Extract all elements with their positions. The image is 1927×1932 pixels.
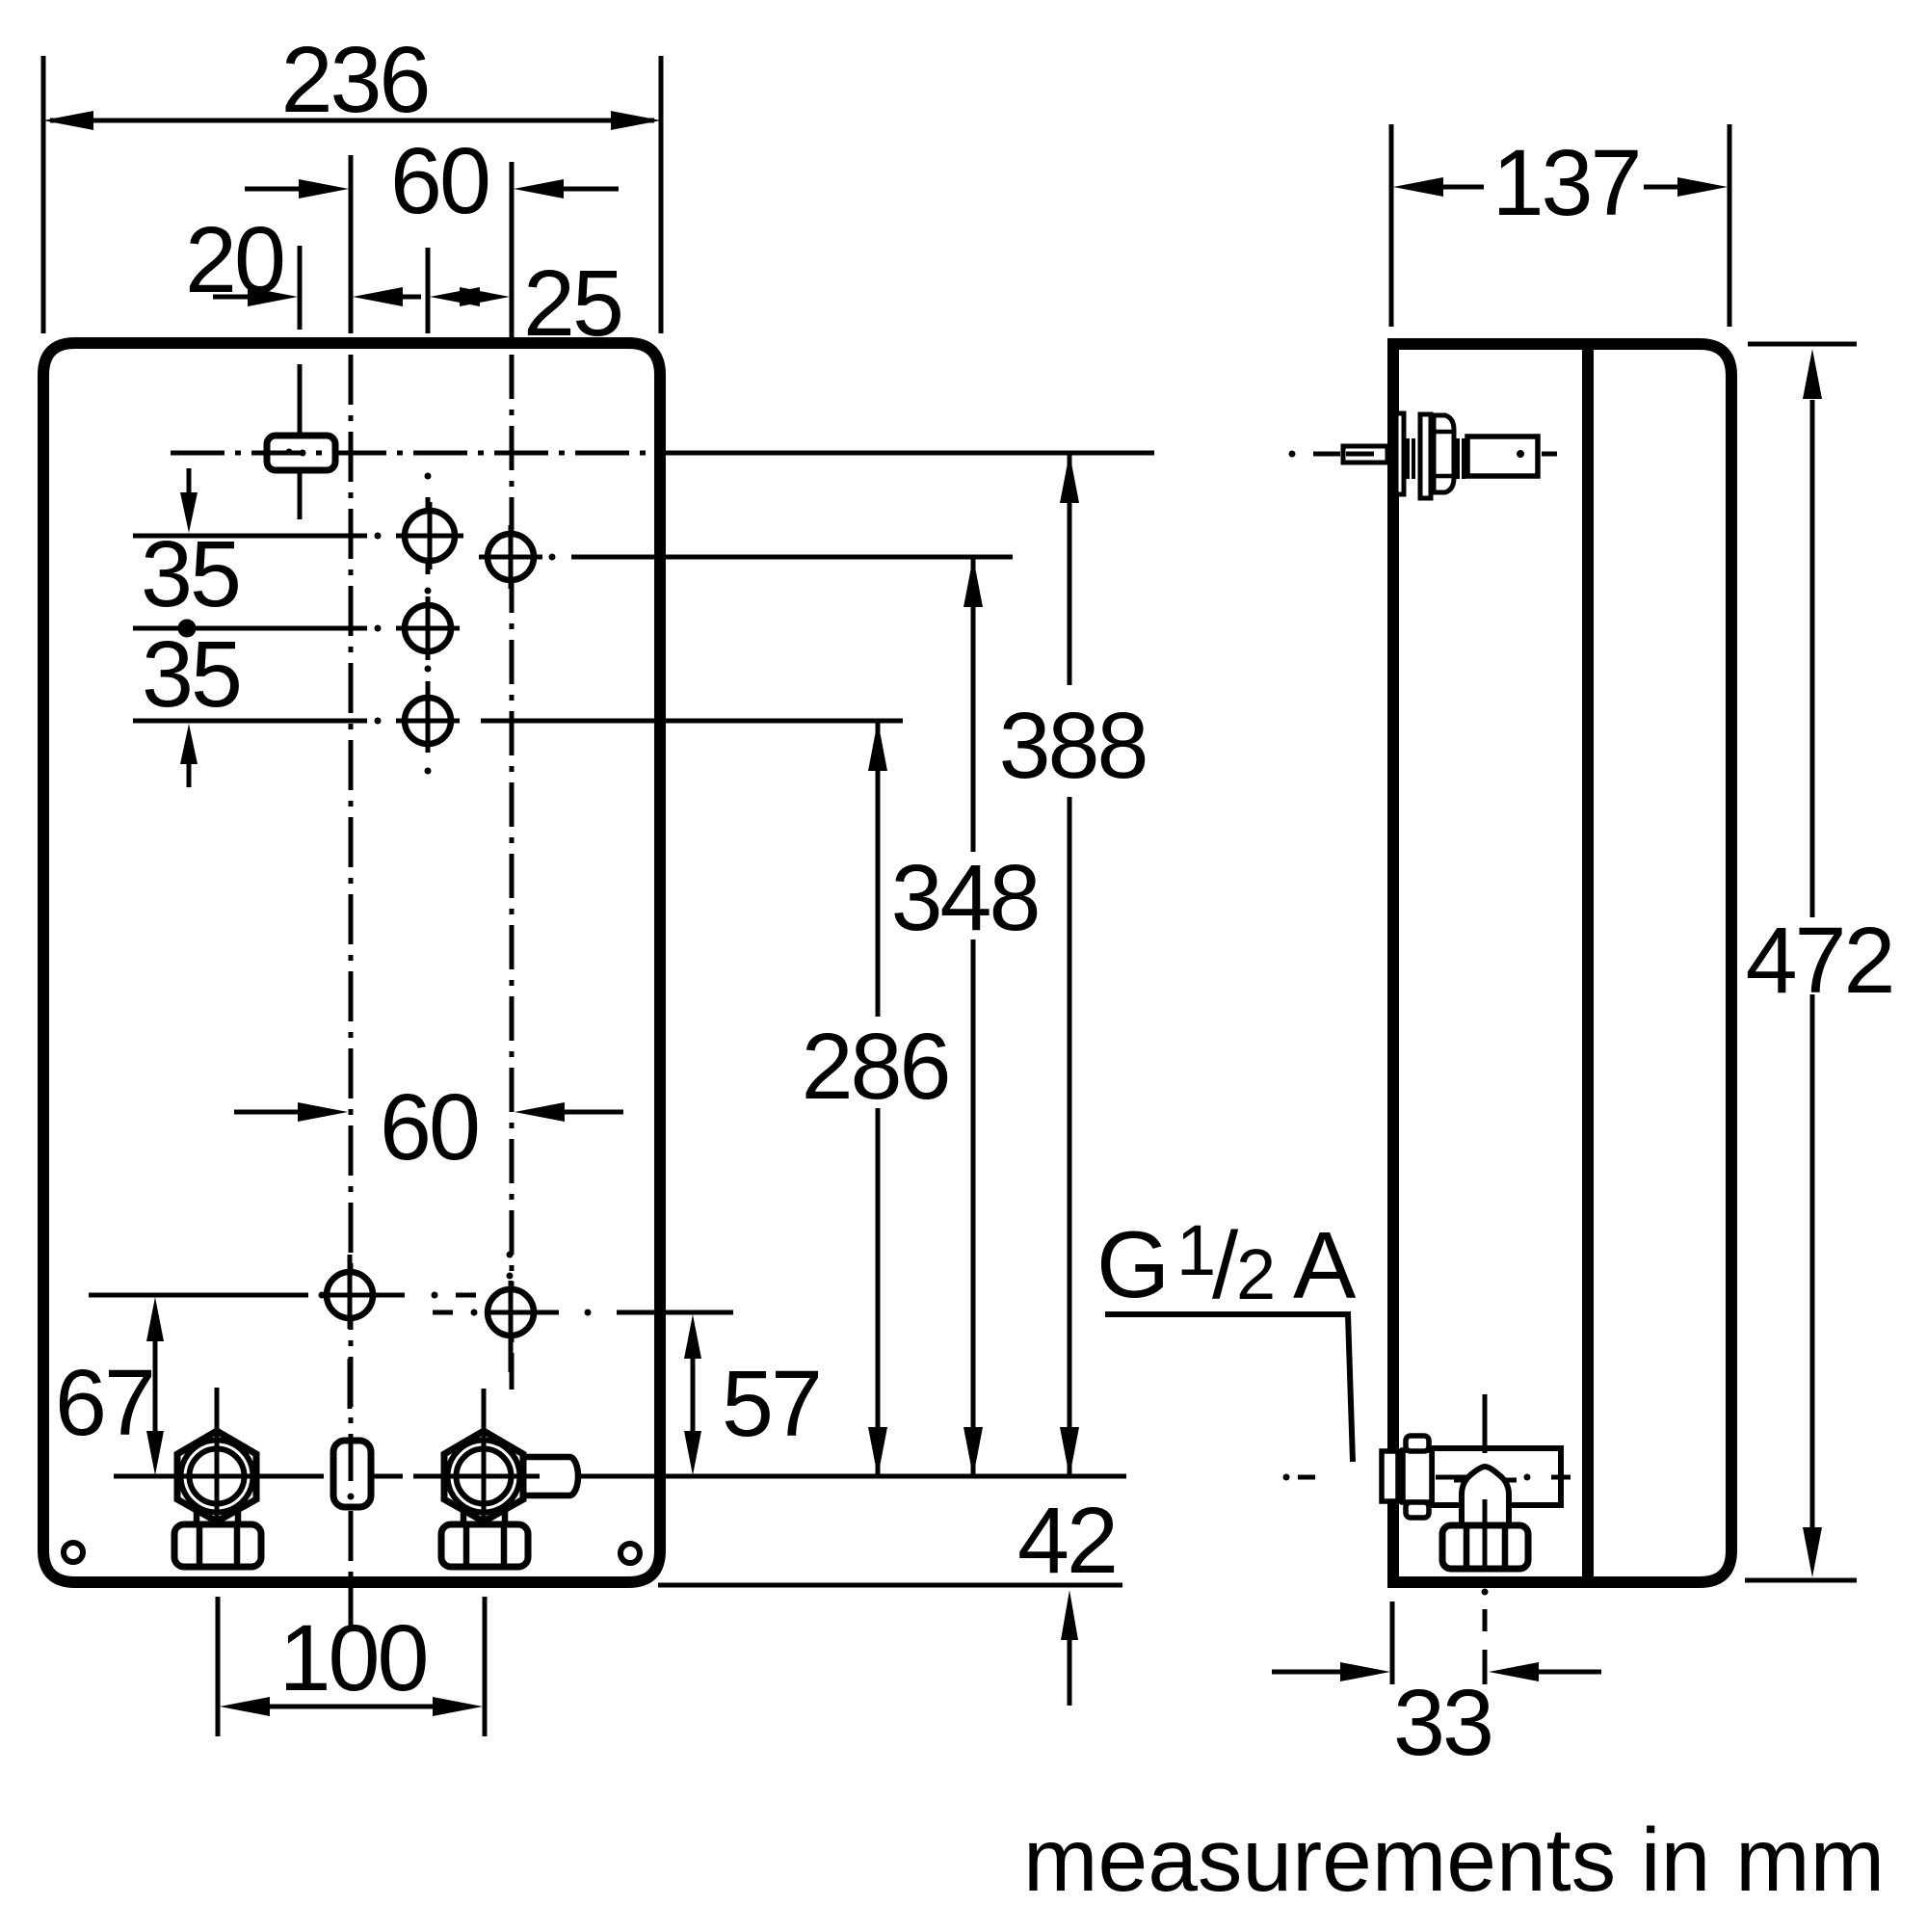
lower hole H2 circle [488, 1289, 534, 1336]
svg-text:60: 60 [390, 128, 488, 233]
side fitting flange [1382, 1451, 1398, 1501]
wall anchor top (pill) [267, 436, 335, 470]
hole row1 left reference line [133, 534, 367, 539]
side fitting pipe [1432, 1448, 1561, 1505]
top bolt hex nut [1434, 415, 1454, 492]
mounting panel outline [43, 343, 660, 1582]
side fitting vertical centerline [1483, 1394, 1488, 1453]
top bolt thread left [1406, 438, 1410, 479]
valve V1 union nut [174, 1524, 261, 1567]
top bolt washer [1420, 414, 1431, 498]
svg-text:472: 472 [1746, 908, 1893, 1013]
dimension 472 reference lines [1748, 342, 1857, 347]
row1-right line extension to 348 dimension [571, 555, 1013, 560]
side view divider line [1582, 344, 1594, 1582]
42 up arrow [1068, 1628, 1072, 1706]
dimension 388 vertical line [1068, 453, 1072, 685]
column C dash-dot through holes [425, 473, 432, 480]
top bolt centerline [1289, 451, 1296, 458]
wall anchor slot bottom [333, 1441, 371, 1507]
svg-text:measurements in mm: measurements in mm [1023, 1810, 1885, 1910]
dimension 57 double arrow [691, 1328, 696, 1462]
svg-text:1: 1 [1176, 1210, 1216, 1290]
valve V2 hexagon [444, 1431, 523, 1522]
dimension 33 [1272, 1670, 1341, 1675]
valve V2 vertical centerline [482, 1389, 487, 1569]
dimension 25 [453, 295, 487, 300]
svg-text:42: 42 [1017, 1488, 1116, 1593]
dimension 472 [1810, 400, 1815, 917]
top bolt flange plate [1396, 413, 1404, 494]
lower hole H2 reference line [433, 1310, 453, 1315]
extension line column C (left hole column) [426, 248, 431, 333]
svg-text:G: G [1096, 1211, 1170, 1317]
svg-text:388: 388 [999, 693, 1147, 798]
top bolt pin [1343, 446, 1387, 463]
svg-text:100: 100 [279, 1605, 427, 1710]
lower hole H1 circle [327, 1272, 373, 1318]
svg-text:35: 35 [142, 622, 240, 727]
dimension 236 extension lines [41, 56, 46, 333]
valve V1 vertical centerline [215, 1388, 220, 1569]
centerline column D (right hole column) [510, 162, 515, 345]
dimension 100 extension lines [216, 1597, 221, 1736]
valve centerline horizontal [114, 1474, 588, 1479]
corner screw hole left [64, 1543, 83, 1562]
corner screw hole right [620, 1544, 640, 1563]
top bolt thread right [1456, 438, 1460, 479]
hole row3 reference line [133, 719, 367, 724]
hole row2 reference line with dot [133, 626, 367, 631]
valve V2 circles [448, 1441, 520, 1513]
svg-text:236: 236 [281, 27, 429, 132]
svg-text:20: 20 [185, 207, 283, 312]
hole row3 circle [405, 698, 451, 744]
row3 line extension to 286 dimension [481, 719, 903, 724]
svg-text:2: 2 [1236, 1234, 1276, 1314]
hole row2 circle [405, 605, 451, 651]
bottom edge extension line (42 reference) [658, 1583, 1122, 1588]
extension line column A (anchor axis) [298, 246, 303, 330]
svg-text:A: A [1293, 1212, 1357, 1318]
valve V1 neck [194, 1505, 200, 1528]
dimension 286 vertical line [876, 721, 881, 1017]
35 upper arrow [187, 468, 192, 508]
svg-text:67: 67 [55, 1350, 153, 1455]
hole row1 left circle [405, 511, 455, 561]
dimension 60 (middle) [234, 1110, 318, 1115]
svg-text:137: 137 [1492, 130, 1640, 235]
svg-text:60: 60 [380, 1074, 478, 1179]
centerline column B (vertical center axis) [349, 155, 354, 333]
anchor horizontal centerline [171, 451, 674, 456]
dimension 33 extension line [1390, 1601, 1395, 1684]
dimension 60 (top) [245, 187, 318, 192]
valve V1 circles [181, 1441, 253, 1513]
valve V2 outlet pipe [520, 1457, 578, 1495]
svg-text:25: 25 [523, 251, 621, 356]
dimension 20 [213, 295, 275, 300]
svg-text:/: / [1212, 1212, 1239, 1318]
lower hole H1 reference line [89, 1293, 308, 1298]
valve V1 hexagon [177, 1431, 256, 1522]
dimension 236 [50, 119, 654, 123]
valve V2 union nut [441, 1524, 528, 1567]
svg-text:33: 33 [1393, 1670, 1491, 1775]
svg-text:57: 57 [722, 1351, 820, 1456]
side fitting elbow [1462, 1467, 1509, 1527]
svg-text:286: 286 [802, 1014, 949, 1119]
dimension 100 [246, 1705, 457, 1709]
svg-text:348: 348 [891, 845, 1039, 950]
dimension 67 double arrow [153, 1310, 158, 1462]
svg-text:35: 35 [141, 521, 239, 626]
35 lower arrow [187, 750, 192, 787]
hole row1 right circle (column D) [482, 555, 540, 560]
dimension 137 extension lines [1389, 124, 1394, 327]
top bolt shaft [1467, 437, 1538, 476]
side fitting union nut [1442, 1525, 1528, 1569]
side fitting hex nut [1403, 1450, 1432, 1502]
dimension 348 vertical line [971, 557, 976, 852]
side view outline [1393, 344, 1731, 1582]
side fitting horizontal centerline [1283, 1474, 1290, 1481]
leader line from G 1/2 A [1105, 1314, 1353, 1462]
valve V2 neck [461, 1505, 467, 1528]
dimension 137 [1439, 185, 1484, 190]
